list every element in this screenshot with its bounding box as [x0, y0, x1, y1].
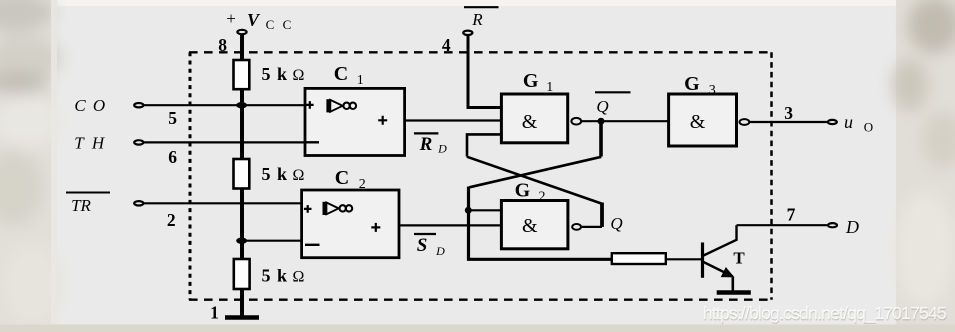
resistor R2 5k	[234, 159, 250, 189]
svg-text:S: S	[417, 235, 428, 256]
svg-text:Ω: Ω	[293, 67, 305, 84]
svg-text:TR: TR	[71, 196, 91, 215]
base resistor	[612, 253, 666, 264]
wire R-bar to G1	[468, 35, 502, 108]
svg-text:3: 3	[709, 83, 716, 98]
svg-text:D: D	[437, 142, 447, 156]
wire R3 to ground	[240, 289, 244, 316]
svg-text:k: k	[277, 164, 287, 184]
comparator C1	[305, 88, 405, 155]
wire TH to C1-	[144, 141, 305, 143]
svg-text:R: R	[471, 10, 483, 29]
svg-text:2: 2	[167, 210, 176, 230]
svg-text:C: C	[334, 63, 348, 85]
G3 output bubble	[740, 119, 750, 125]
svg-text:4: 4	[442, 35, 451, 55]
resistor R1 5k	[234, 60, 250, 89]
node divider top (dot)	[236, 102, 247, 108]
svg-text:R: R	[419, 134, 433, 155]
terminal D (pin 7)	[828, 223, 837, 227]
comparator C2	[302, 190, 399, 258]
wire R1 to R2	[240, 89, 244, 159]
svg-text:D: D	[435, 244, 445, 258]
wire TR to C2+	[144, 202, 302, 204]
gate G1	[501, 94, 567, 143]
svg-text:G: G	[523, 70, 539, 92]
svg-text:V: V	[247, 10, 261, 30]
label 5k ohm (R2)	[262, 164, 305, 184]
label G2	[515, 180, 546, 205]
IC boundary (dashed)	[189, 52, 772, 299]
svg-text:5: 5	[262, 64, 271, 84]
gate G3	[669, 94, 737, 146]
svg-text:C: C	[283, 17, 292, 32]
svg-text:3: 3	[784, 103, 793, 123]
wire Qbar feedback (to G2 input and transistor)	[599, 121, 603, 156]
label G3	[684, 73, 716, 98]
wire G1 input3 from Q feedback	[467, 134, 501, 156]
wire divider to C2-	[242, 240, 302, 242]
G2 output bubble	[572, 224, 581, 230]
svg-text:O: O	[864, 120, 873, 135]
ground (emitter)	[717, 290, 751, 295]
svg-text:&: &	[522, 215, 538, 237]
terminal R-bar (pin 4)	[463, 31, 472, 35]
label TH	[74, 134, 106, 153]
wire CO to C1+	[144, 104, 305, 106]
svg-text:5: 5	[168, 108, 177, 128]
label C1	[334, 63, 364, 88]
node Qbar (dot)	[598, 118, 605, 125]
label +Vcc	[226, 9, 291, 32]
svg-text:5: 5	[262, 266, 271, 286]
label 5k ohm (R3)	[262, 266, 305, 286]
svg-text:Q: Q	[596, 97, 608, 116]
svg-text:Ω: Ω	[293, 167, 305, 184]
svg-text:C: C	[335, 167, 349, 189]
wire C2 out to G2 (Sd-bar net)	[399, 224, 501, 226]
wire R2 to R3	[240, 189, 244, 260]
svg-text:&: &	[690, 111, 706, 133]
svg-text:T: T	[74, 134, 85, 153]
svg-text:8: 8	[218, 35, 227, 55]
wire collector to pin 7	[737, 224, 828, 226]
wire base resistor to transistor	[666, 258, 701, 260]
left texture strip	[0, 0, 62, 332]
svg-text:6: 6	[168, 147, 177, 167]
ground (pin 1)	[225, 315, 259, 320]
svg-text:2: 2	[359, 177, 366, 192]
svg-text:T: T	[733, 249, 745, 268]
terminal uo (pin 3)	[828, 120, 837, 124]
label C2	[335, 167, 366, 192]
svg-text:O: O	[93, 96, 105, 115]
svg-text:G: G	[684, 73, 700, 95]
transistor T	[703, 225, 746, 291]
node G2 input (dot)	[465, 207, 472, 214]
svg-text:+: +	[226, 9, 236, 28]
svg-text:C: C	[74, 96, 86, 115]
svg-text:Ω: Ω	[293, 269, 305, 286]
terminal TR-bar (pin 2)	[134, 201, 143, 205]
label R-bar	[464, 7, 499, 29]
G1 output bubble	[571, 118, 581, 125]
svg-text:G: G	[515, 180, 531, 202]
wire G3 to pin 3	[749, 121, 827, 123]
label Qbar	[595, 92, 631, 116]
wire C1 out to G1 (Rd-bar net)	[405, 119, 502, 121]
terminal TH (pin 6)	[134, 140, 143, 144]
terminal VCC (pin 8)	[237, 30, 246, 34]
svg-text:1: 1	[210, 303, 219, 323]
wire Vcc vertical	[240, 35, 244, 61]
svg-text:2: 2	[539, 190, 546, 205]
label Sd-bar	[414, 234, 445, 258]
label CO	[74, 96, 105, 115]
label 5k ohm (R1)	[262, 64, 305, 84]
svg-text:Q: Q	[610, 214, 622, 233]
svg-text:1: 1	[546, 80, 553, 95]
svg-text:k: k	[277, 266, 287, 286]
gate G2	[501, 201, 568, 249]
label TR-bar	[66, 193, 110, 216]
wire G1 out to G3	[581, 120, 668, 122]
label G1	[523, 70, 553, 95]
svg-text:7: 7	[787, 205, 796, 225]
label uo	[844, 112, 873, 135]
svg-text:D: D	[845, 217, 859, 237]
label Rd-bar	[414, 133, 447, 155]
node divider bottom (dot)	[236, 238, 247, 244]
svg-text:5: 5	[262, 164, 271, 184]
resistor R3 5k	[234, 259, 250, 289]
svg-text:1: 1	[357, 73, 364, 88]
svg-text:C: C	[266, 17, 275, 32]
svg-text:k: k	[277, 64, 287, 84]
svg-text:u: u	[844, 112, 853, 132]
right texture strip	[892, 0, 955, 332]
wire dot to G2 input1	[468, 209, 501, 211]
terminal CO (pin 5)	[134, 103, 143, 107]
svg-text:H: H	[91, 134, 106, 153]
svg-text:https://blog.csdn.net/qq_17017: https://blog.csdn.net/qq_17017545	[703, 303, 947, 324]
svg-text:&: &	[522, 111, 538, 133]
